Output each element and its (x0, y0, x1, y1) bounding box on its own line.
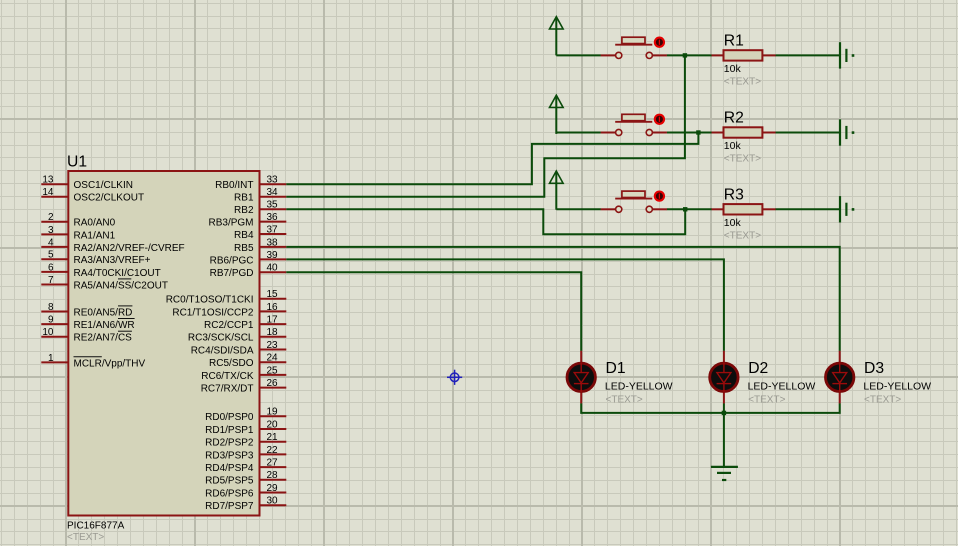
svg-text:34: 34 (267, 187, 279, 198)
wire VCC arrow to SW3 left terminal (556, 208, 601, 210)
pin 15 (RC0/T1OSO/T1CKI) (166, 289, 287, 306)
pin 30 (RD7/PSP7) (205, 496, 286, 512)
resistor R2 10k (712, 127, 776, 137)
svg-text:1: 1 (48, 353, 54, 364)
resistor R3 10k (712, 204, 776, 214)
pin 38 (RB5) (234, 237, 286, 254)
pin 37 (RB4) (234, 224, 286, 241)
pin 9 (RE1/AN6/WR) (41, 315, 134, 332)
svg-text:16: 16 (267, 302, 279, 313)
svg-text:RC6/TX/CK: RC6/TX/CK (201, 371, 254, 382)
svg-text:RD6/PSP6: RD6/PSP6 (205, 488, 254, 499)
terminal T2 (battery bar) (840, 119, 854, 145)
svg-text:35: 35 (267, 200, 279, 211)
power terminal VCC #1 (550, 17, 564, 56)
pin 20 (RD1/PSP1) (205, 419, 286, 436)
svg-text:5: 5 (48, 250, 54, 261)
svg-text:RC0/T1OSO/T1CKI: RC0/T1OSO/T1CKI (166, 295, 254, 306)
pin 28 (RD5/PSP5) (205, 470, 286, 487)
wire RB2 pin35 to button SW3 junction (286, 209, 685, 234)
svg-text:8: 8 (48, 302, 54, 313)
wire VCC arrow to SW1 left terminal (556, 54, 601, 56)
svg-text:RB1: RB1 (234, 193, 254, 204)
pin 40 (RB7/PGD) (210, 263, 287, 280)
svg-text:RC7/RX/DT: RC7/RX/DT (201, 384, 254, 395)
PIC16F877A U1 body (68, 171, 259, 516)
svg-text:RD5/PSP5: RD5/PSP5 (205, 476, 254, 487)
wire SW2 right terminal to R2 (667, 132, 712, 134)
junction ground bus (722, 411, 726, 415)
resistor R1 10k (712, 50, 776, 60)
push button SW3 (601, 191, 667, 212)
svg-text:RD7/PSP7: RD7/PSP7 (205, 501, 254, 512)
svg-text:10: 10 (42, 327, 54, 338)
svg-text:33: 33 (267, 175, 279, 186)
svg-text:RD1/PSP1: RD1/PSP1 (205, 425, 254, 436)
svg-text:37: 37 (267, 224, 279, 235)
pin 16 (RC1/T1OSI/CCP2) (172, 302, 286, 319)
svg-text:RB0/INT: RB0/INT (215, 180, 253, 191)
svg-text:<TEXT>: <TEXT> (67, 532, 104, 543)
pin 22 (RD3/PSP3) (205, 445, 286, 462)
pin 8 (RE0/AN5/RD) (41, 302, 132, 319)
pin 1 (MCLR/Vpp/THV) (41, 353, 145, 370)
pin 18 (RC3/SCK/SCL) (188, 327, 286, 344)
svg-text:R3: R3 (724, 186, 744, 203)
terminal T1 (battery bar) (840, 42, 854, 68)
svg-text:RB2: RB2 (234, 205, 254, 216)
junction SW3/R3/RB2 (683, 207, 687, 211)
wire LED cathode ground bus (581, 403, 840, 413)
wire RB6 pin39 to LED D2 anode (286, 259, 724, 351)
svg-text:10k: 10k (724, 140, 742, 152)
wire SW1 right terminal to R1 (667, 54, 712, 56)
svg-text:7: 7 (48, 275, 54, 286)
svg-text:10k: 10k (724, 217, 742, 229)
pin 21 (RD2/PSP2) (205, 432, 286, 449)
power terminal VCC #3 (550, 171, 564, 210)
pin 35 (RB2) (234, 200, 286, 217)
power terminal VCC #2 (550, 95, 564, 134)
wire LED D2 cathode drop (723, 403, 725, 413)
svg-text:4: 4 (48, 237, 54, 248)
sheet origin marker (447, 370, 462, 385)
pin 26 (RC7/RX/DT) (201, 378, 287, 395)
junction SW1/R1/RB1 (683, 53, 687, 57)
svg-text:RC1/T1OSI/CCP2: RC1/T1OSI/CCP2 (172, 307, 254, 318)
svg-text:25: 25 (267, 365, 279, 376)
svg-text:RA4/T0CKI/C1OUT: RA4/T0CKI/C1OUT (74, 268, 161, 279)
pin 23 (RC4/SDI/SDA) (191, 340, 287, 357)
LED D2 LED-YELLOW (710, 351, 738, 404)
pin 25 (RC6/TX/CK) (201, 365, 286, 382)
svg-text:<TEXT>: <TEXT> (606, 394, 643, 405)
pin 2 (RA0/AN0) (41, 212, 115, 229)
svg-text:RD2/PSP2: RD2/PSP2 (205, 438, 254, 449)
svg-text:D3: D3 (864, 360, 884, 377)
svg-text:RC5/SDO: RC5/SDO (209, 358, 254, 369)
svg-text:38: 38 (267, 237, 279, 248)
wire RB0 pin33 to button SW2 junction (286, 133, 698, 185)
pin 10 (RE2/AN7/CS) (41, 327, 132, 344)
svg-text:20: 20 (267, 419, 279, 430)
svg-text:RA2/AN2/VREF-/CVREF: RA2/AN2/VREF-/CVREF (74, 243, 185, 254)
svg-text:RA5/AN4/SS/C2OUT: RA5/AN4/SS/C2OUT (74, 280, 168, 291)
svg-text:27: 27 (267, 458, 279, 469)
svg-text:RC4/SDI/SDA: RC4/SDI/SDA (191, 345, 254, 356)
svg-text:OSC1/CLKIN: OSC1/CLKIN (74, 180, 133, 191)
pin 5 (RA3/AN3/VREF+) (41, 250, 150, 267)
svg-text:<TEXT>: <TEXT> (724, 230, 761, 241)
wire RB1 pin34 to button SW1 junction (286, 55, 685, 196)
svg-text:6: 6 (48, 262, 54, 273)
svg-text:39: 39 (267, 250, 279, 261)
svg-text:RE2/AN7/CS: RE2/AN7/CS (74, 333, 133, 344)
pin 33 (RB0/INT) (215, 175, 286, 192)
svg-text:21: 21 (267, 432, 279, 443)
svg-text:29: 29 (267, 483, 279, 494)
svg-text:RB4: RB4 (234, 230, 254, 241)
svg-text:9: 9 (48, 315, 54, 326)
pin 24 (RC5/SDO) (209, 353, 286, 370)
junction SW2/R2/RB0 (696, 130, 700, 134)
svg-text:23: 23 (267, 340, 279, 351)
wire R3 to terminal T3 (775, 208, 839, 210)
svg-text:RB3/PGM: RB3/PGM (208, 218, 253, 229)
pin 4 (RA2/AN2/VREF-/CVREF) (41, 237, 184, 254)
svg-text:RB5: RB5 (234, 243, 254, 254)
pin 39 (RB6/PGC) (210, 250, 287, 267)
pin 17 (RC2/CCP1) (204, 315, 286, 332)
wire VCC arrow to SW2 left terminal (556, 132, 601, 134)
svg-text:18: 18 (267, 327, 279, 338)
pin 14 (OSC2/CLKOUT) (41, 187, 144, 204)
svg-text:19: 19 (267, 407, 279, 418)
svg-text:3: 3 (48, 225, 54, 236)
svg-text:17: 17 (267, 315, 279, 326)
svg-text:10k: 10k (724, 63, 742, 75)
svg-text:RC2/CCP1: RC2/CCP1 (204, 320, 254, 331)
svg-text:RB7/PGD: RB7/PGD (210, 268, 254, 279)
svg-text:RB6/PGC: RB6/PGC (210, 255, 254, 266)
pin 7 (RA5/AN4/SS/C2OUT) (41, 275, 168, 292)
terminal T3 (battery bar) (840, 196, 854, 222)
svg-text:OSC2/CLKOUT: OSC2/CLKOUT (74, 193, 145, 204)
svg-text:22: 22 (267, 445, 279, 456)
wire R2 to terminal T2 (775, 132, 839, 134)
pin 29 (RD6/PSP6) (205, 483, 286, 500)
LED D3 LED-YELLOW (826, 351, 854, 404)
svg-text:U1: U1 (67, 154, 87, 171)
svg-text:<TEXT>: <TEXT> (724, 76, 761, 87)
svg-text:R1: R1 (724, 32, 744, 49)
svg-text:D2: D2 (748, 360, 768, 377)
LED D1 LED-YELLOW (567, 351, 595, 404)
svg-text:40: 40 (267, 263, 279, 274)
svg-text:30: 30 (267, 496, 279, 507)
svg-text:RA3/AN3/VREF+: RA3/AN3/VREF+ (74, 255, 151, 266)
wire RB5 pin38 to LED D3 anode (286, 247, 839, 351)
svg-text:LED-YELLOW: LED-YELLOW (863, 381, 931, 393)
pin 36 (RB3/PGM) (208, 212, 286, 229)
svg-text:<TEXT>: <TEXT> (748, 394, 785, 405)
pin 13 (OSC1/CLKIN) (41, 175, 133, 192)
pin 19 (RD0/PSP0) (205, 407, 286, 424)
svg-text:LED-YELLOW: LED-YELLOW (605, 381, 673, 393)
svg-text:RD3/PSP3: RD3/PSP3 (205, 450, 254, 461)
ground terminal (711, 467, 738, 480)
push button SW2 (601, 114, 667, 135)
wire SW3 right terminal to R3 (667, 208, 712, 210)
pin 34 (RB1) (234, 187, 286, 204)
svg-text:36: 36 (267, 212, 279, 223)
wire ground stem (723, 413, 725, 466)
svg-text:PIC16F877A: PIC16F877A (67, 521, 125, 532)
svg-text:RD0/PSP0: RD0/PSP0 (205, 412, 254, 423)
wire RB7 pin40 to LED D1 anode (286, 272, 581, 351)
svg-text:26: 26 (267, 378, 279, 389)
svg-text:28: 28 (267, 470, 279, 481)
svg-text:RC3/SCK/SCL: RC3/SCK/SCL (188, 333, 254, 344)
svg-text:13: 13 (42, 175, 54, 186)
svg-text:RA0/AN0: RA0/AN0 (74, 218, 116, 229)
svg-text:R2: R2 (724, 110, 744, 127)
pin 27 (RD4/PSP4) (205, 458, 286, 475)
svg-text:15: 15 (267, 289, 279, 300)
wire R1 to terminal T1 (775, 54, 839, 56)
svg-text:24: 24 (267, 353, 279, 364)
svg-text:2: 2 (48, 212, 54, 223)
svg-text:RE0/AN5/RD: RE0/AN5/RD (74, 307, 133, 318)
svg-text:MCLR/Vpp/THV: MCLR/Vpp/THV (74, 358, 146, 369)
svg-text:14: 14 (42, 187, 54, 198)
pin 6 (RA4/T0CKI/C1OUT) (41, 262, 160, 279)
svg-text:RA1/AN1: RA1/AN1 (74, 230, 116, 241)
svg-text:LED-YELLOW: LED-YELLOW (748, 381, 816, 393)
svg-text:RE1/AN6/WR: RE1/AN6/WR (74, 320, 135, 331)
pin 3 (RA1/AN1) (41, 225, 115, 242)
svg-text:RD4/PSP4: RD4/PSP4 (205, 463, 254, 474)
svg-text:<TEXT>: <TEXT> (724, 154, 761, 165)
svg-text:D1: D1 (606, 360, 626, 377)
push button SW1 (601, 37, 667, 58)
svg-text:<TEXT>: <TEXT> (864, 394, 901, 405)
